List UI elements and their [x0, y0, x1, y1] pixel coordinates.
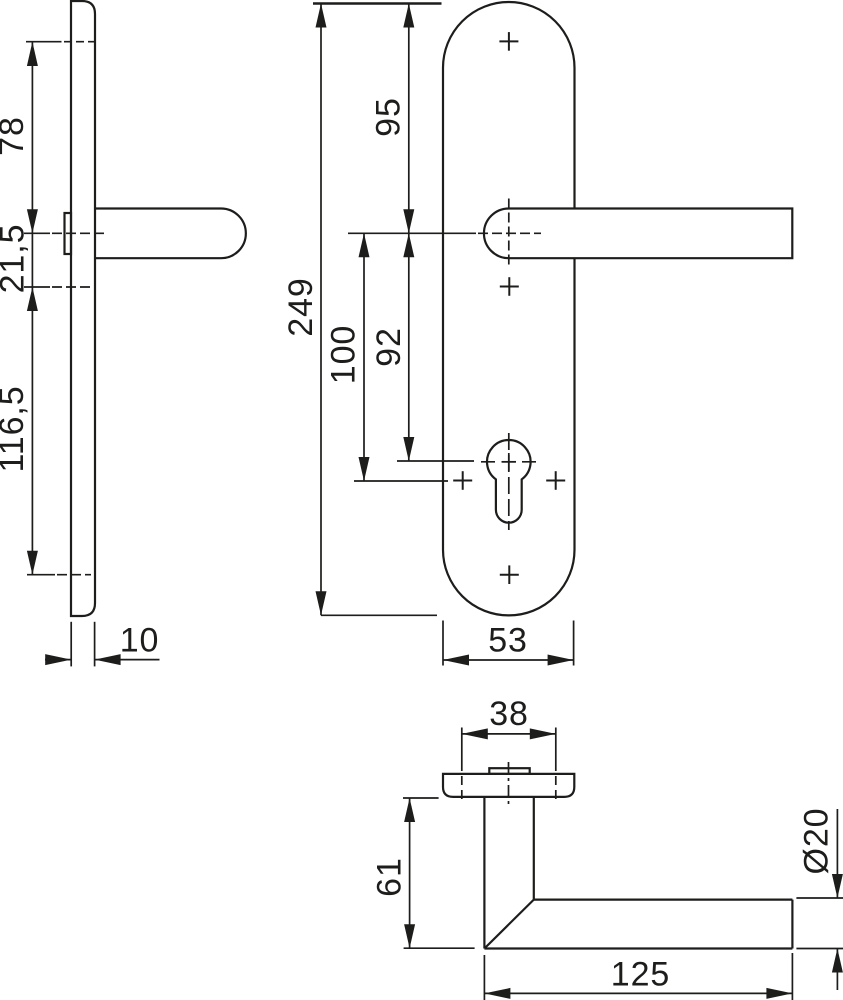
- neck left edge: [483, 797, 485, 949]
- crosshair top hole: [499, 32, 518, 51]
- arrow down at bottom hole: [27, 551, 38, 575]
- arrow down 249 bottom: [316, 591, 327, 615]
- cylinder horizontal ref solid: [397, 460, 474, 462]
- arrow right 38: [530, 728, 556, 739]
- grip bottom edge: [484, 947, 792, 949]
- cylinder horizontal centerline dashed: [481, 461, 537, 463]
- crosshair screw left: [453, 471, 472, 490]
- arrow up at lower hole: [27, 287, 38, 311]
- centerline lower hole (y=287): [24, 286, 92, 288]
- arrow down 61: [404, 924, 415, 948]
- arrow left toward plate right: [95, 654, 121, 665]
- svg-text:78: 78: [0, 116, 31, 156]
- top extension line: [313, 2, 442, 5]
- arrow down 100 bottom: [359, 457, 370, 481]
- handle horizontal centerline solid part: [348, 232, 476, 234]
- extension lines 53: [443, 621, 574, 666]
- screw hole ref line y=481: [354, 480, 448, 482]
- extension lines 38 dashed (hidden): [462, 762, 556, 804]
- arrow down O20: [832, 874, 843, 898]
- arrow up O20: [832, 949, 843, 973]
- svg-text:125: 125: [611, 956, 670, 994]
- arrow down at handle axis: [27, 209, 38, 233]
- svg-text:92: 92: [370, 327, 408, 367]
- svg-text:249: 249: [282, 277, 320, 336]
- extension lines 125: [484, 953, 792, 1000]
- lever bar side view: [96, 209, 246, 259]
- spindle tab: [489, 768, 529, 774]
- dimension line O20 top: [836, 809, 838, 898]
- dimension line O20 bottom: [836, 949, 838, 991]
- svg-text:38: 38: [489, 695, 529, 733]
- PZ cylinder hole: [487, 440, 531, 523]
- arrow up 249 top: [316, 4, 327, 28]
- grip end: [791, 900, 793, 949]
- dimension line 61: [409, 798, 411, 948]
- backplate side profile: [71, 1, 95, 616]
- grip top edge: [534, 898, 793, 900]
- svg-text:116,5: 116,5: [0, 385, 31, 472]
- crosshair screw right: [546, 471, 565, 490]
- centerline handle axis (y=233): [24, 232, 104, 234]
- dimension line 38: [462, 733, 556, 735]
- rose / plate top view: [443, 774, 574, 797]
- lever bar front view: [484, 209, 792, 259]
- bottom extension line of 249: [321, 614, 437, 616]
- dimension line 100: [363, 233, 365, 481]
- arrow up 95 top: [403, 4, 414, 28]
- arrow left 125: [484, 988, 510, 999]
- svg-text:53: 53: [488, 622, 528, 660]
- extension lines 61: [403, 798, 475, 948]
- svg-text:21,5: 21,5: [0, 224, 32, 294]
- cylinder vertical centerline: [508, 433, 510, 530]
- dimension line 249: [320, 4, 322, 616]
- dimension line 125: [484, 992, 792, 994]
- spindle boss rectangle: [65, 213, 72, 254]
- arrow down 95 bottom: [403, 209, 414, 233]
- dimension chain line x=32.4: [31, 42, 33, 575]
- crosshair bottom hole: [500, 565, 519, 584]
- centerline top hole (y=41.7): [26, 41, 95, 43]
- dimension 10 lines: [45, 659, 160, 661]
- svg-text:Ø20: Ø20: [798, 808, 836, 875]
- handle vertical centerline: [508, 199, 510, 267]
- arrow right 53: [548, 655, 574, 666]
- arrow up 100 top: [359, 233, 370, 257]
- neck right edge: [533, 797, 535, 900]
- extension lines for 10: [71, 622, 94, 667]
- extension lines O20: [796, 898, 843, 949]
- svg-text:61: 61: [371, 857, 409, 897]
- dimension line 53: [443, 659, 574, 661]
- handle horizontal centerline dashed part: [478, 232, 541, 234]
- dimension line 95/92: [408, 4, 410, 462]
- arrow left 38: [462, 728, 488, 739]
- centerline bottom hole (y=574.7): [27, 574, 91, 576]
- arrow up 92 top: [403, 233, 414, 257]
- crosshair below handle: [500, 277, 519, 296]
- arrow left 53: [443, 655, 469, 666]
- svg-text:100: 100: [325, 325, 363, 384]
- svg-text:95: 95: [370, 97, 408, 137]
- arrow up at 78 top: [27, 42, 38, 66]
- arrow down 92 bottom: [403, 437, 414, 461]
- arrow up 61: [404, 798, 415, 822]
- miter line: [484, 900, 533, 949]
- extension lines 38 solid: [462, 728, 556, 763]
- arrow right 125: [766, 988, 792, 999]
- arrow right toward plate left: [45, 654, 71, 665]
- svg-text:10: 10: [120, 622, 160, 660]
- backplate front outline (obround): [443, 2, 575, 615]
- rose centerline: [508, 762, 510, 806]
